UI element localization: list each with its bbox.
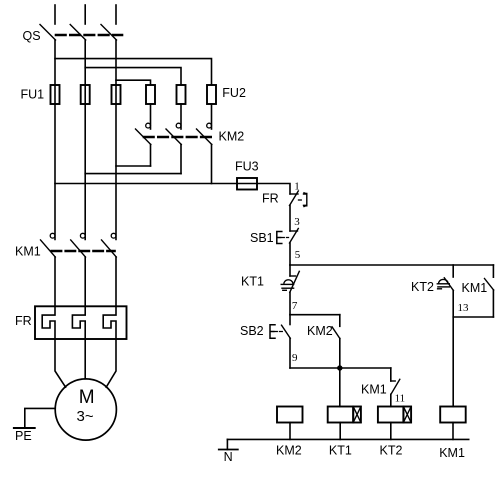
- SB1 actuator E: [277, 232, 282, 244]
- contactor KM1 main contact 2: [80, 233, 85, 238]
- wire KM1 contacts to FR box: [54, 257, 56, 306]
- wire node 3: [289, 206, 291, 232]
- wire motor to PE: [25, 408, 55, 427]
- wire KM2 contact1 down to bus C': [150, 145, 152, 167]
- FR heater element 3: [103, 306, 116, 339]
- ground PE bar: [14, 427, 35, 429]
- fuse FU1 pole3: [112, 85, 121, 104]
- svg-text:PE: PE: [15, 429, 32, 443]
- fuse FU3: [237, 178, 257, 190]
- svg-text:QS: QS: [23, 29, 41, 43]
- SB2 actuator E: [270, 325, 275, 338]
- svg-text:KM1: KM1: [15, 244, 41, 258]
- contactor KM2 main contact 1: [146, 123, 151, 128]
- contactor KM1 linkage (dashed): [52, 250, 115, 253]
- wire KM2 coil to N: [289, 423, 291, 440]
- bus crossover C' (fuse4 branch to phase3): [116, 165, 151, 167]
- coil KT1: [328, 407, 354, 423]
- FR actuator bracket: [304, 193, 307, 207]
- switch QS pole 2 blade: [70, 25, 86, 41]
- wire KM2 contact3 down to bus A': [211, 145, 213, 184]
- coil KT2: [378, 407, 404, 423]
- timed contact KT1: [289, 265, 291, 276]
- wire KM2 aux to KT1 coil: [339, 339, 341, 407]
- svg-text:M: M: [79, 387, 95, 408]
- wire KM1 aux to KT2 coil: [390, 394, 392, 406]
- phase line L2 top: [84, 5, 86, 24]
- node 13 rail: [453, 316, 493, 318]
- svg-text:FR: FR: [262, 192, 279, 206]
- fuse FU1 pole1: [51, 85, 60, 104]
- svg-text:3~: 3~: [77, 408, 94, 425]
- contactor KM2 main contact 2: [176, 123, 181, 128]
- svg-text:FU1: FU1: [21, 88, 45, 102]
- svg-text:KM2: KM2: [276, 444, 302, 458]
- bus crossover B' (fuse5 branch to phase2): [85, 173, 181, 175]
- svg-text:FU2: FU2: [222, 86, 246, 100]
- contact KM2 aux (NO): [339, 315, 341, 327]
- svg-text:KT2: KT2: [380, 444, 403, 458]
- svg-text:KM2: KM2: [219, 130, 245, 144]
- fuse FU1 pole2: [81, 85, 90, 104]
- thermal relay FR box: [35, 306, 127, 339]
- contactor KM2 main contact 3: [207, 123, 212, 128]
- bus crossover C (phase3 to fuse4): [116, 80, 151, 85]
- motor M 3~: [55, 379, 116, 440]
- pushbutton SB1 (NC): [290, 230, 298, 232]
- wire KT2 coil to N: [390, 423, 392, 440]
- wire KM1 right to node 13: [492, 290, 494, 317]
- contactor KM2 linkage (dashed): [144, 136, 211, 139]
- FR heater element 2: [72, 306, 85, 339]
- wire KT2 branch to node 13 and KM1 coil: [452, 291, 454, 407]
- node 5 rail: [290, 264, 493, 266]
- svg-text:KT2: KT2: [411, 280, 434, 294]
- switch QS pole 3 blade: [101, 25, 117, 41]
- wire KT1 coil to N: [339, 423, 341, 440]
- wire node 5: [289, 243, 291, 265]
- svg-text:FR: FR: [15, 314, 32, 328]
- switch QS pole 1 blade: [40, 25, 56, 41]
- wire KM1 coil to N: [452, 423, 454, 440]
- wire fuse5 to KM2 contact: [180, 104, 182, 129]
- svg-text:N: N: [224, 450, 233, 464]
- svg-text:KM1: KM1: [462, 281, 488, 295]
- contact KM1 aux right (NO): [492, 265, 494, 277]
- wire fuse6 to KM2 contact: [211, 104, 213, 129]
- phase line L1 top: [54, 5, 56, 24]
- node 7 rail: [290, 314, 340, 316]
- neutral rail N: [227, 438, 468, 440]
- svg-text:11: 11: [395, 393, 406, 405]
- timed contact KT2: [452, 265, 454, 277]
- contact KM1 aux (NO, node 11): [390, 368, 392, 381]
- svg-text:SB1: SB1: [250, 231, 274, 245]
- FR heater element 1: [42, 306, 55, 339]
- node 9 rail: [290, 367, 391, 369]
- coil KM2: [277, 407, 303, 423]
- SB1 dashed link: [282, 237, 289, 239]
- wire node 9 left branch: [289, 338, 291, 368]
- svg-text:13: 13: [458, 302, 470, 314]
- wire phase1 vertical (QS to KM1 contact): [54, 40, 56, 239]
- svg-text:KT1: KT1: [329, 444, 352, 458]
- svg-text:KM1: KM1: [361, 383, 387, 397]
- wire phase2 vertical: [84, 40, 86, 239]
- FR actuator dashed link: [299, 199, 304, 201]
- phase line L3 top: [115, 5, 117, 24]
- wire KM2 contact2 down to bus B': [180, 145, 182, 174]
- fuse FU2 pole3: [207, 85, 216, 104]
- wire FR to motor phase1: [55, 339, 66, 387]
- fuse FU2 pole1: [146, 85, 155, 104]
- svg-text:3: 3: [294, 216, 300, 228]
- bus crossover A' (fuse6 branch to phase1, feeds FU3): [55, 184, 290, 195]
- svg-text:FU3: FU3: [235, 160, 259, 174]
- wire fuse4 to KM2 contact: [150, 104, 152, 129]
- contactor KM1 main contact 1: [50, 233, 55, 238]
- svg-text:KM2: KM2: [307, 324, 333, 338]
- KT1 delay symbol: [284, 280, 293, 284]
- N terminal: [226, 439, 228, 449]
- svg-text:SB2: SB2: [240, 324, 264, 338]
- switch QS linkage (dashed): [56, 34, 122, 37]
- SB2 dashed link: [275, 331, 285, 333]
- KT2 delay symbol: [439, 279, 448, 283]
- junction node 9: [337, 365, 342, 370]
- pushbutton SB2 (NO): [289, 315, 291, 325]
- bus crossover B (phase2 to fuse5): [85, 68, 181, 85]
- svg-text:7: 7: [292, 300, 298, 312]
- svg-text:5: 5: [295, 249, 301, 261]
- coil KM1: [440, 407, 466, 423]
- contact FR (NC, control): [290, 193, 298, 195]
- bus crossover A (phase1 to fuse6): [55, 59, 212, 85]
- svg-text:KT1: KT1: [241, 275, 264, 289]
- wire phase3 vertical: [115, 40, 117, 239]
- wire node 7: [289, 292, 291, 314]
- svg-text:KM1: KM1: [439, 446, 465, 460]
- svg-text:9: 9: [292, 352, 298, 364]
- contactor KM1 main contact 3: [111, 233, 116, 238]
- svg-text:1: 1: [294, 181, 300, 193]
- fuse FU2 pole2: [177, 85, 186, 104]
- wire FR to motor phase2: [84, 339, 86, 379]
- wire FR to motor phase3: [106, 339, 116, 387]
